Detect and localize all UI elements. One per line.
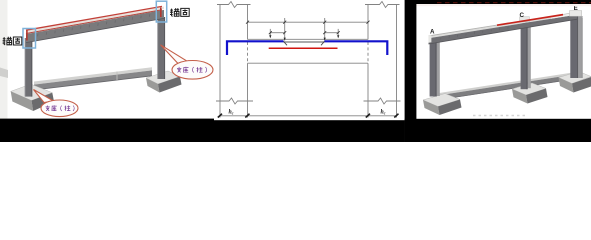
right panel right footing bbox=[559, 72, 591, 84]
tie beam front face bbox=[34, 70, 152, 90]
callout bubble 支座（柱） upper right bbox=[161, 45, 214, 79]
anchorage highlight box right (blue) bbox=[156, 1, 166, 22]
left column inner line hidden (dashed) bbox=[247, 42, 249, 63]
beam bottom edge line bbox=[248, 62, 369, 64]
bottom dimension line bbox=[220, 115, 397, 117]
bottom break line right bbox=[364, 98, 401, 104]
top rebar left segment (blue) bbox=[227, 41, 284, 55]
red rebar line on beam bbox=[497, 15, 563, 26]
right panel middle footing bbox=[512, 83, 546, 95]
right column inner line upper bbox=[367, 5, 369, 40]
bottom witness extensions bbox=[219, 101, 221, 118]
tie beam seam bbox=[116, 72, 118, 81]
dark red dashed line in top band bbox=[437, 2, 591, 4]
main beam A-E top face bbox=[429, 13, 578, 39]
left margin light strip bbox=[0, 0, 8, 120]
top black band right bbox=[416, 0, 591, 4]
bottom break line left bbox=[216, 98, 253, 104]
tie beam top face bbox=[34, 67, 152, 84]
cut-off rebar (gray mid segment) bbox=[284, 41, 325, 43]
bottom black band middle bbox=[214, 120, 405, 142]
cap on column E bbox=[570, 11, 582, 17]
svg-text:C: C bbox=[520, 12, 525, 19]
frame beam front face bbox=[26, 10, 164, 43]
stray gray beam stub at left edge bbox=[0, 68, 8, 79]
rebar bend-down at left joint bbox=[26, 31, 28, 41]
column C bbox=[528, 21, 531, 88]
tie beam bottom edge bbox=[34, 76, 152, 90]
witness vertical x=284.7 bbox=[284, 18, 286, 41]
witness vertical x=324.7 bbox=[324, 18, 326, 41]
witness down arrows bbox=[269, 35, 339, 40]
right panel left footing bbox=[423, 94, 460, 107]
left footing top face bbox=[11, 84, 53, 100]
dimension slash ticks bbox=[246, 21, 370, 35]
right footing top face bbox=[146, 71, 180, 84]
page background bbox=[0, 0, 591, 142]
dimension line 2a bbox=[270, 32, 284, 34]
right column outer line bbox=[396, 5, 398, 102]
svg-text:E: E bbox=[574, 5, 578, 12]
middle panel white background bbox=[214, 0, 405, 120]
svg-text:hc: hc bbox=[381, 110, 386, 116]
frame beam bottom edge bbox=[26, 18, 164, 42]
label 锚固 (left) bbox=[3, 37, 22, 45]
main beam A-E front face bbox=[429, 15, 578, 44]
beam top rebar (red line 1) bbox=[26, 6, 162, 30]
top cut line left with break bbox=[217, 2, 251, 8]
beam front top edge (red line 2) bbox=[26, 10, 162, 34]
right column inner line hidden (dashed) bbox=[367, 42, 369, 63]
column A bbox=[437, 42, 440, 96]
lap rebar (red) bbox=[269, 47, 338, 49]
main beam top edge line bbox=[429, 12, 578, 36]
rebar bend-down at right joint bbox=[160, 8, 162, 18]
label 锚固 (right) bbox=[170, 8, 189, 16]
main beam bottom edge line bbox=[429, 19, 578, 44]
right panel tie beam front bbox=[436, 74, 580, 101]
beam end cap at A bbox=[428, 35, 431, 42]
witness vertical x=270.3 bbox=[269, 29, 271, 38]
left column inner line lower bbox=[247, 63, 249, 101]
witness vertical x=338.2 bbox=[337, 29, 339, 38]
bar cut tick right bbox=[321, 41, 325, 45]
left column bbox=[25, 38, 32, 97]
cap on column C bbox=[520, 17, 530, 22]
left column outer line bbox=[219, 5, 221, 102]
right footing front face bbox=[158, 77, 182, 93]
beam stirrup ticks right panel bbox=[441, 27, 509, 40]
beam stirrup ticks bbox=[38, 14, 150, 36]
bottom black band right bbox=[405, 119, 591, 142]
faint watermark dashes bbox=[473, 115, 526, 117]
top cut line right with break bbox=[365, 2, 400, 8]
right column inner line lower bbox=[367, 63, 369, 101]
bottom black band left bbox=[0, 119, 214, 142]
frame beam top face bbox=[26, 7, 164, 33]
right footing left face bbox=[146, 78, 160, 93]
light top segment C-E bbox=[551, 13, 572, 18]
anchorage highlight box left (blue) bbox=[23, 29, 36, 49]
left footing left face bbox=[11, 91, 34, 111]
top rebar right segment (blue) bbox=[325, 41, 388, 55]
dimension line 1 bbox=[248, 21, 369, 23]
right panel tie beam light top bbox=[436, 71, 580, 95]
left footing front face bbox=[32, 93, 55, 111]
bar cut tick left bbox=[284, 41, 288, 45]
svg-text:A: A bbox=[430, 29, 435, 36]
right column bbox=[157, 17, 165, 79]
dimension line 2b bbox=[325, 32, 339, 34]
beam top edge line bbox=[248, 38, 369, 40]
svg-text:hc: hc bbox=[229, 110, 234, 116]
column E bbox=[578, 16, 583, 78]
callout bubble 支座（柱） bottom bbox=[34, 90, 79, 117]
vertical divider strip bbox=[405, 0, 417, 142]
left column inner line upper bbox=[247, 5, 249, 40]
